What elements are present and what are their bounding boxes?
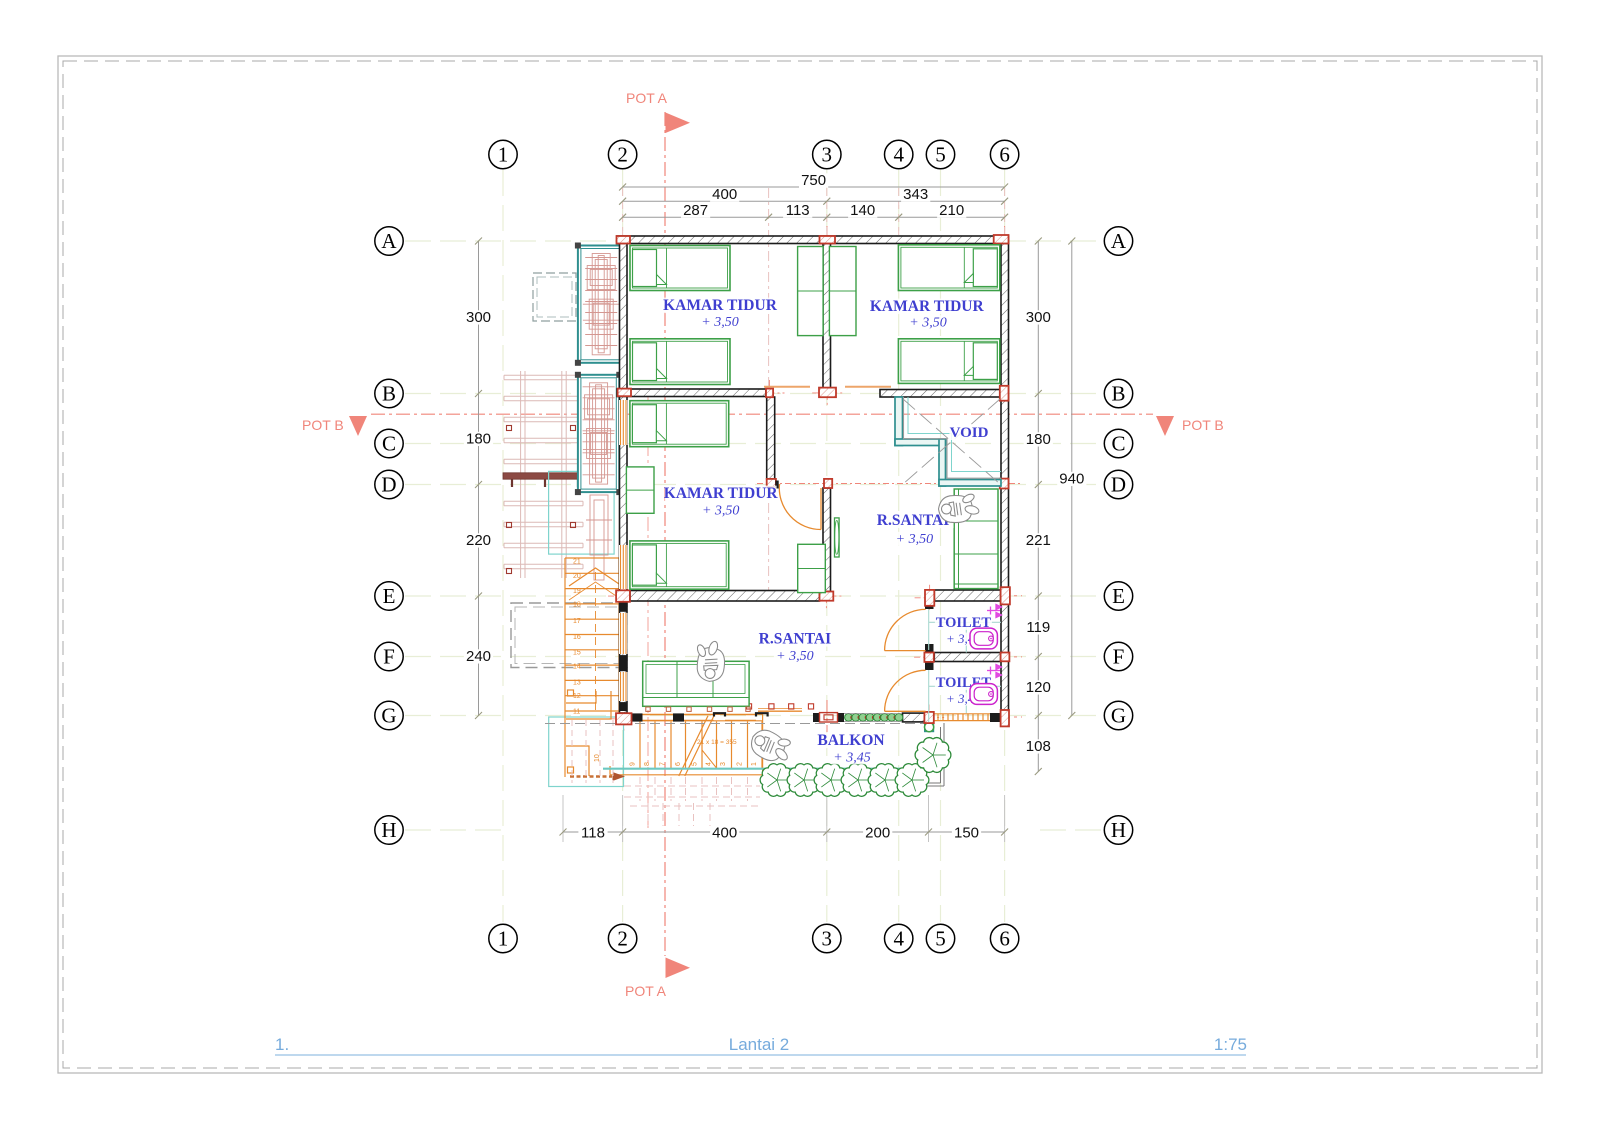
svg-text:B: B: [382, 382, 396, 406]
svg-text:2: 2: [617, 927, 628, 951]
svg-text:R.SANTAI: R.SANTAI: [877, 512, 950, 529]
svg-text:180: 180: [466, 431, 491, 448]
svg-text:F: F: [1113, 645, 1125, 669]
svg-text:17: 17: [573, 618, 581, 625]
svg-text:POT B: POT B: [1182, 417, 1224, 433]
svg-text:+ 3,45: + 3,45: [833, 751, 870, 766]
svg-text:118: 118: [581, 825, 605, 842]
svg-text:1:75: 1:75: [1214, 1035, 1247, 1054]
svg-text:KAMAR TIDUR: KAMAR TIDUR: [663, 297, 778, 314]
svg-text:+ 3,50: + 3,50: [702, 504, 739, 519]
svg-text:A: A: [381, 229, 397, 253]
svg-text:5: 5: [935, 143, 946, 167]
svg-text:E: E: [383, 584, 396, 608]
svg-text:3: 3: [822, 143, 833, 167]
svg-text:3: 3: [822, 927, 833, 951]
svg-text:E: E: [1112, 584, 1125, 608]
svg-text:18: 18: [573, 601, 581, 608]
svg-text:2: 2: [737, 762, 744, 766]
svg-text:7: 7: [659, 762, 666, 766]
svg-text:Lantai 2: Lantai 2: [729, 1035, 790, 1054]
svg-text:15: 15: [573, 650, 581, 657]
svg-text:1: 1: [498, 927, 509, 951]
svg-text:B: B: [1111, 382, 1125, 406]
svg-text:8: 8: [644, 762, 651, 766]
svg-text:19: 19: [573, 588, 581, 595]
svg-text:R.SANTAI: R.SANTAI: [759, 631, 832, 648]
svg-text:9: 9: [629, 762, 636, 766]
svg-text:G: G: [1111, 704, 1126, 728]
svg-text:750: 750: [801, 172, 826, 189]
svg-text:1: 1: [751, 762, 758, 766]
svg-text:+ 3,50: + 3,50: [896, 532, 933, 547]
svg-text:140: 140: [850, 202, 875, 219]
svg-text:+ 3,50: + 3,50: [701, 315, 738, 330]
svg-text:300: 300: [466, 309, 491, 326]
svg-text:21 x 18 = 355: 21 x 18 = 355: [697, 739, 737, 746]
svg-text:VOID: VOID: [950, 425, 989, 441]
svg-text:6: 6: [675, 762, 682, 766]
svg-text:5: 5: [935, 927, 946, 951]
svg-text:20: 20: [573, 573, 581, 580]
svg-text:180: 180: [1026, 431, 1051, 448]
svg-text:G: G: [381, 704, 396, 728]
svg-text:2: 2: [617, 143, 628, 167]
svg-text:940: 940: [1059, 471, 1084, 488]
svg-text:343: 343: [903, 186, 928, 203]
svg-text:220: 220: [466, 532, 491, 549]
svg-text:13: 13: [573, 679, 581, 686]
svg-text:108: 108: [1026, 738, 1051, 755]
svg-text:113: 113: [786, 202, 810, 219]
svg-text:5: 5: [692, 762, 699, 766]
svg-text:KAMAR TIDUR: KAMAR TIDUR: [870, 298, 985, 315]
svg-text:POT A: POT A: [625, 983, 667, 999]
svg-text:H: H: [1111, 818, 1126, 842]
svg-text:KAMAR TIDUR: KAMAR TIDUR: [664, 485, 779, 502]
svg-text:300: 300: [1026, 309, 1051, 326]
svg-text:240: 240: [466, 648, 491, 665]
svg-text:119: 119: [1026, 619, 1050, 636]
svg-text:16: 16: [573, 634, 581, 641]
svg-text:21: 21: [573, 559, 581, 566]
svg-text:4: 4: [893, 143, 904, 167]
svg-text:4: 4: [893, 927, 904, 951]
svg-text:287: 287: [683, 202, 708, 219]
svg-text:12: 12: [573, 693, 581, 700]
svg-text:D: D: [381, 473, 396, 497]
svg-text:POT B: POT B: [302, 417, 344, 433]
svg-text:D: D: [1111, 473, 1126, 497]
svg-text:+ 3,50: + 3,50: [776, 649, 813, 664]
svg-text:120: 120: [1026, 679, 1051, 696]
svg-text:F: F: [383, 645, 395, 669]
svg-text:400: 400: [712, 825, 737, 842]
svg-text:400: 400: [712, 186, 737, 203]
svg-text:POT A: POT A: [626, 90, 668, 106]
svg-text:C: C: [1111, 432, 1125, 456]
svg-text:1: 1: [498, 143, 509, 167]
svg-text:H: H: [381, 818, 396, 842]
svg-text:1.: 1.: [275, 1035, 289, 1054]
svg-text:3: 3: [720, 762, 727, 766]
svg-text:200: 200: [865, 825, 890, 842]
svg-text:14: 14: [573, 664, 581, 671]
svg-text:6: 6: [999, 143, 1010, 167]
svg-text:210: 210: [939, 202, 964, 219]
svg-text:11: 11: [573, 708, 580, 715]
svg-text:+ 3,50: + 3,50: [909, 316, 946, 331]
svg-text:6: 6: [999, 927, 1010, 951]
svg-text:BALKON: BALKON: [817, 732, 884, 749]
svg-text:C: C: [382, 432, 396, 456]
svg-text:A: A: [1111, 229, 1127, 253]
svg-text:221: 221: [1026, 532, 1051, 549]
svg-text:150: 150: [954, 825, 979, 842]
